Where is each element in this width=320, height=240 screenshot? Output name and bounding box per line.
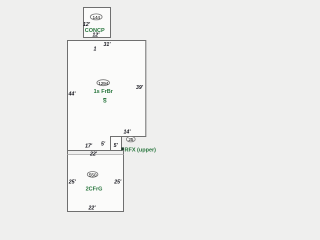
svg-text:RFX (upper): RFX (upper)	[125, 147, 157, 153]
area oval 25	[126, 137, 135, 142]
svg-text:1s FrBr: 1s FrBr	[94, 89, 114, 95]
svg-text:31': 31'	[103, 42, 111, 48]
svg-text:1: 1	[94, 47, 97, 53]
svg-text:1294: 1294	[98, 81, 108, 87]
svg-text:44': 44'	[67, 92, 76, 98]
svg-text:25': 25'	[68, 180, 77, 186]
garage box 2CFrG 22x25	[68, 155, 124, 212]
wire right edge connector	[123, 150, 125, 155]
label S with overline	[103, 97, 106, 99]
RFX corner marker	[121, 147, 124, 150]
svg-text:14': 14'	[123, 129, 131, 135]
svg-text:144: 144	[92, 15, 100, 21]
svg-text:22': 22'	[87, 206, 96, 212]
main house outline 1s FrBr	[68, 41, 146, 151]
RFX upper box 5x5	[111, 137, 122, 151]
svg-text:17': 17'	[85, 143, 93, 149]
CONCP porch box 12x12	[84, 8, 111, 38]
svg-text:2CFrG: 2CFrG	[86, 187, 103, 193]
area oval 550	[87, 172, 98, 178]
area oval 144	[90, 14, 102, 20]
svg-text:22': 22'	[89, 152, 98, 158]
svg-text:12': 12'	[92, 32, 100, 38]
svg-text:25: 25	[128, 137, 133, 143]
svg-text:550: 550	[89, 173, 97, 179]
wire left edge connector	[67, 150, 69, 155]
svg-text:39': 39'	[136, 85, 144, 91]
svg-text:25': 25'	[113, 180, 122, 186]
svg-text:S: S	[103, 99, 107, 105]
area oval 1294	[97, 80, 110, 86]
